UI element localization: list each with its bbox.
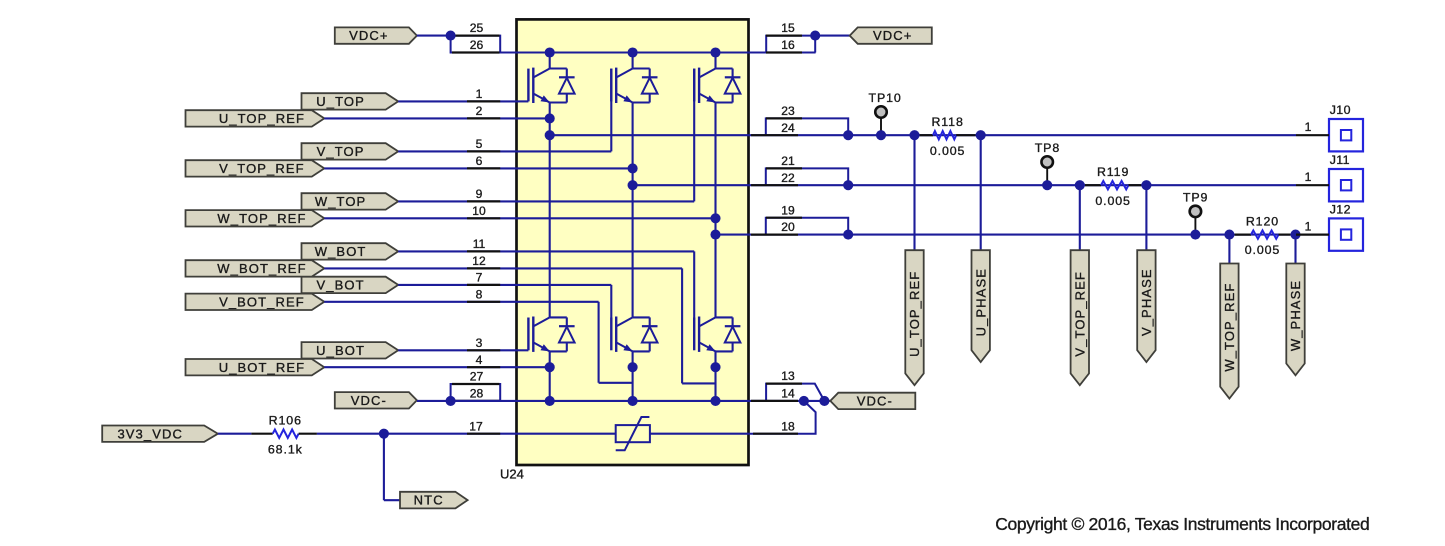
wire U_BOT_REF to module pin 4 — [324, 366, 516, 368]
wire W_BOT_REF to module pin 12 — [324, 267, 516, 269]
wire V phase leg — [632, 53, 634, 69]
diode W bottom — [716, 316, 733, 318]
pin 18 — [753, 433, 798, 435]
net flag V_PHASE — [1137, 250, 1155, 362]
wire U phase leg — [549, 53, 551, 69]
wire pin2 to U leg — [517, 117, 550, 119]
svg-text:10: 10 — [472, 204, 486, 218]
svg-text:V_TOP_REF: V_TOP_REF — [1072, 271, 1087, 357]
wire gate U_BOT — [517, 349, 529, 351]
net flag V_TOP_REF — [1071, 250, 1089, 385]
signal flag U_BOT — [302, 342, 399, 358]
wire U_TOP to module pin 1 — [398, 100, 516, 102]
wire to W_TOP_REF flag — [1228, 235, 1230, 264]
wire pin16 out of module — [749, 51, 816, 53]
svg-text:0.005: 0.005 — [930, 144, 966, 158]
wire pin20 out of module — [749, 234, 849, 236]
pin 28 — [452, 400, 500, 402]
wire R106 to pin17 — [317, 433, 517, 435]
wire pin14 out of module — [749, 400, 804, 402]
resistor R118 left lead — [920, 134, 933, 136]
wire VDC- flag to junction — [417, 400, 451, 402]
pin 13 — [766, 383, 802, 385]
svg-text:1: 1 — [1305, 219, 1312, 233]
svg-text:VDC+: VDC+ — [349, 28, 388, 43]
junction VDC- V — [628, 396, 638, 406]
transistor IGBT W bottom — [693, 318, 695, 351]
wire phase net — [848, 134, 1296, 136]
pin 25 — [452, 34, 500, 36]
svg-text:0.005: 0.005 — [1245, 243, 1281, 257]
pin 4 — [467, 366, 500, 368]
junction bus V leg — [628, 47, 638, 57]
junction U_PHASE — [976, 130, 986, 140]
pin 3 — [467, 349, 500, 351]
svg-text:4: 4 — [476, 353, 483, 367]
pin 23 — [766, 117, 802, 119]
diode U bottom — [550, 316, 567, 318]
wire to W_PHASE flag — [1294, 235, 1296, 264]
resistor R119 right lead — [1129, 184, 1142, 186]
wire pin4 to U leg — [517, 366, 550, 368]
net flag W_PHASE — [1286, 264, 1304, 376]
transistor IGBT U bottom — [527, 318, 529, 351]
wire to U_PHASE flag — [980, 135, 982, 250]
signal flag W_TOP — [302, 193, 399, 209]
net flag NTC — [400, 492, 468, 509]
transistor IGBT U top — [527, 69, 529, 102]
svg-text:V_TOP: V_TOP — [317, 144, 365, 159]
pin 10 — [467, 217, 500, 219]
J12 pin 1 lead — [1296, 234, 1329, 236]
junction loop 19-20 — [843, 230, 853, 240]
svg-text:R106: R106 — [269, 414, 302, 428]
junction bus W leg — [710, 47, 720, 57]
wire gate V_TOP vertical — [610, 69, 612, 152]
svg-text:1: 1 — [1305, 120, 1312, 134]
loop pins 25-26 — [451, 36, 501, 53]
pin 24 — [751, 134, 798, 136]
svg-text:23: 23 — [781, 104, 795, 118]
svg-text:20: 20 — [781, 220, 795, 234]
diode W top — [716, 67, 733, 69]
pin 26 — [452, 51, 500, 53]
svg-text:VDC+: VDC+ — [873, 28, 912, 43]
wire 3V3_VDC to R106 — [218, 433, 252, 435]
junction loop 23-24 — [843, 130, 853, 140]
power flag VDC- (right) — [830, 393, 915, 409]
svg-text:W_BOT_REF: W_BOT_REF — [217, 261, 306, 276]
junction pin14 dot1 — [799, 396, 809, 406]
wire pin28 into module — [451, 400, 517, 402]
wire U_TOP_REF to module pin 2 — [324, 117, 516, 119]
wire to VDC- right flag — [824, 400, 830, 402]
loop pins 27-28 — [451, 384, 501, 401]
signal flag V_TOP_REF — [186, 160, 325, 176]
loop pin 13 — [766, 384, 824, 401]
junction pin13-14 dot2 — [819, 396, 829, 406]
wire V phase to pins 21-22 — [633, 184, 749, 186]
wire V_BOT_REF to module pin 8 — [324, 301, 516, 303]
junction V_PHASE — [1141, 180, 1151, 190]
junction V leg pin8 — [628, 362, 638, 372]
svg-text:R118: R118 — [931, 115, 963, 129]
wire to V_TOP_REF flag — [1079, 185, 1081, 250]
signal flag W_BOT — [302, 243, 399, 259]
svg-text:28: 28 — [470, 387, 484, 401]
pin 21 — [766, 167, 802, 169]
connector J11 — [1329, 169, 1363, 201]
wire pin6 to V leg — [517, 167, 633, 169]
junction W_TOP_REF — [1224, 230, 1234, 240]
junction NTC branch — [379, 429, 389, 439]
signal flag V_TOP — [302, 143, 399, 159]
junction VDC+ left — [446, 31, 456, 41]
svg-text:12: 12 — [472, 254, 486, 268]
svg-text:U_BOT_REF: U_BOT_REF — [219, 360, 305, 375]
pin 1 — [467, 100, 500, 102]
svg-text:U_BOT: U_BOT — [316, 343, 365, 358]
pin 6 — [467, 167, 500, 169]
junction V leg phase out — [628, 180, 638, 190]
svg-text:26: 26 — [470, 38, 484, 52]
svg-text:TP8: TP8 — [1035, 141, 1060, 155]
IGBT power module U24 body — [517, 19, 749, 465]
svg-text:Copyright © 2016, Texas Instru: Copyright © 2016, Texas Instruments Inco… — [995, 514, 1369, 534]
svg-text:V_PHASE: V_PHASE — [1139, 268, 1154, 336]
svg-text:8: 8 — [476, 287, 483, 301]
resistor R119 left lead — [1085, 184, 1101, 186]
resistor R106 right lead — [299, 433, 317, 435]
junction W leg pin10 — [710, 213, 720, 223]
junction W leg pin12 — [710, 362, 720, 372]
svg-text:V_BOT_REF: V_BOT_REF — [219, 294, 305, 309]
wire V_BOT to module pin 7 — [398, 284, 516, 286]
resistor R106 left lead — [251, 433, 272, 435]
svg-text:V_TOP_REF: V_TOP_REF — [219, 161, 305, 176]
junction VDC+ right — [810, 31, 820, 41]
wire VDC- bus inside module — [517, 400, 749, 402]
wire gate U_TOP — [517, 100, 529, 102]
signal flag U_TOP — [302, 93, 399, 109]
wire pin10 to W leg — [517, 217, 716, 219]
wire W phase leg — [714, 53, 716, 69]
power flag VDC+ (right) — [850, 27, 932, 43]
net flag U_PHASE — [972, 250, 990, 362]
signal flag V_BOT_REF — [186, 294, 325, 310]
svg-text:16: 16 — [781, 38, 795, 52]
wire W_TOP_REF to module pin 10 — [324, 217, 516, 219]
svg-text:17: 17 — [469, 419, 483, 433]
junction VDC- left — [446, 396, 456, 406]
svg-text:19: 19 — [781, 203, 795, 217]
junction VDC- W — [710, 396, 720, 406]
svg-text:3V3_VDC: 3V3_VDC — [117, 426, 183, 441]
svg-text:2: 2 — [476, 104, 483, 118]
junction V_TOP_REF — [1075, 180, 1085, 190]
junction V leg pin6 — [628, 163, 638, 173]
wire pin24 out of module — [749, 134, 849, 136]
transistor IGBT V bottom — [610, 318, 612, 351]
svg-text:25: 25 — [470, 21, 484, 35]
wire U phase to pins 23-24 — [550, 134, 749, 136]
pin 9 — [467, 200, 500, 202]
loop pins 23-24 — [766, 118, 848, 135]
transistor IGBT W top — [693, 69, 695, 102]
svg-text:U24: U24 — [500, 467, 524, 482]
wire pin8 route to V leg — [517, 301, 599, 303]
pin 16 — [766, 51, 802, 53]
resistor R120 right lead — [1279, 234, 1291, 236]
net flag W_TOP_REF — [1220, 264, 1238, 399]
svg-text:VDC-: VDC- — [857, 394, 893, 409]
wire pin22 out of module — [749, 184, 849, 186]
resistor R119 — [1101, 181, 1129, 189]
junction U leg pin4 — [545, 362, 555, 372]
svg-text:J10: J10 — [1330, 103, 1351, 117]
svg-text:11: 11 — [473, 237, 486, 251]
svg-text:9: 9 — [476, 187, 483, 201]
junction loop 21-22 — [843, 180, 853, 190]
svg-text:15: 15 — [781, 21, 795, 35]
signal flag W_BOT_REF — [186, 260, 325, 276]
wire pin18 riser — [749, 401, 816, 434]
pin 12 — [467, 267, 500, 269]
wire V_TOP to module pin 5 — [398, 150, 516, 152]
svg-text:7: 7 — [476, 271, 483, 285]
svg-text:U_TOP_REF: U_TOP_REF — [219, 111, 305, 126]
J11 pin 1 lead — [1296, 184, 1329, 186]
resistor R118 — [933, 131, 956, 139]
wire phase net — [848, 234, 1296, 236]
wire to U_TOP_REF flag — [913, 135, 915, 250]
svg-text:U_TOP: U_TOP — [316, 94, 365, 109]
pin 7 — [467, 284, 500, 286]
svg-text:24: 24 — [781, 121, 795, 135]
resistor R118 right lead — [956, 134, 975, 136]
svg-text:W_TOP_REF: W_TOP_REF — [1222, 283, 1237, 372]
svg-text:VDC-: VDC- — [351, 393, 387, 408]
svg-text:1: 1 — [1305, 170, 1312, 184]
J10 pin 1 lead — [1296, 134, 1329, 136]
test point TP8 — [1046, 162, 1048, 185]
svg-text:21: 21 — [781, 154, 795, 168]
svg-text:TP10: TP10 — [869, 91, 902, 105]
diode V top — [633, 67, 650, 69]
power flag VDC+ (left) — [335, 27, 417, 43]
thermistor NTC symbol — [616, 425, 650, 442]
svg-text:0.005: 0.005 — [1095, 194, 1131, 208]
wire W phase to pins 19-20 — [716, 234, 749, 236]
svg-text:14: 14 — [781, 387, 795, 401]
svg-text:R120: R120 — [1246, 214, 1279, 228]
svg-text:18: 18 — [781, 419, 795, 433]
resistor R120 left lead — [1235, 234, 1251, 236]
power flag VDC- (left) — [335, 392, 417, 408]
svg-text:W_PHASE: W_PHASE — [1288, 280, 1303, 351]
signal flag W_TOP_REF — [186, 210, 325, 226]
test point TP9 — [1194, 211, 1196, 234]
pin 11 — [467, 250, 500, 252]
wire dot1 to dot2 — [804, 400, 825, 402]
transistor IGBT V top — [610, 69, 612, 102]
connector J10 — [1329, 119, 1363, 151]
signal flag U_BOT_REF — [186, 359, 325, 375]
junction U_TOP_REF — [909, 130, 919, 140]
diode V bottom — [633, 316, 650, 318]
pin 2 — [467, 117, 500, 119]
svg-text:6: 6 — [476, 154, 483, 168]
svg-text:68.1k: 68.1k — [268, 442, 303, 456]
connector J12 — [1329, 218, 1363, 250]
wire U_BOT to module pin 3 — [398, 349, 516, 351]
svg-text:J11: J11 — [1330, 153, 1350, 167]
svg-text:TP9: TP9 — [1183, 190, 1208, 204]
loop pins 21-22 — [766, 168, 848, 185]
svg-text:NTC: NTC — [414, 493, 444, 508]
wire NTC row inside module — [517, 433, 616, 435]
svg-text:W_TOP: W_TOP — [315, 194, 367, 209]
wire VDC+ bus inside module — [517, 51, 749, 53]
wire V_TOP_REF to module pin 6 — [324, 167, 516, 169]
loop pins 19-20 — [766, 218, 848, 235]
svg-text:5: 5 — [476, 137, 483, 151]
junction U leg phase out — [545, 130, 555, 140]
svg-text:U_PHASE: U_PHASE — [973, 268, 988, 336]
net flag U_TOP_REF — [905, 250, 923, 385]
svg-text:22: 22 — [781, 171, 795, 185]
wire VDC+ flag to junction — [417, 35, 451, 37]
resistor R120 — [1251, 230, 1279, 238]
wire W_TOP to module pin 9 — [398, 200, 516, 202]
pin 20 — [751, 234, 798, 236]
wire to V_PHASE flag — [1145, 185, 1147, 250]
svg-text:13: 13 — [781, 369, 795, 383]
junction W leg phase out — [710, 230, 720, 240]
wire pin12 route to W leg — [517, 267, 683, 269]
svg-text:27: 27 — [470, 370, 484, 384]
svg-text:W_TOP_REF: W_TOP_REF — [217, 211, 306, 226]
signal flag U_TOP_REF — [186, 110, 325, 126]
svg-text:J12: J12 — [1330, 202, 1351, 216]
resistor R106 — [273, 430, 299, 438]
svg-text:1: 1 — [476, 87, 483, 101]
power flag 3V3_VDC — [102, 426, 218, 442]
svg-text:V_BOT: V_BOT — [317, 278, 365, 293]
pin 8 — [467, 301, 500, 303]
pin 17 — [467, 433, 500, 435]
wire pin26 into module — [451, 51, 517, 53]
pin 19 — [766, 217, 802, 219]
wire phase net — [848, 184, 1296, 186]
wire W_BOT to module pin 11 — [398, 250, 516, 252]
pin 15 — [766, 34, 802, 36]
diode U top — [550, 67, 567, 69]
svg-text:R119: R119 — [1097, 165, 1129, 179]
test point TP10 — [880, 112, 882, 135]
wire NTC branch down — [383, 434, 385, 501]
junction U leg pin2 — [545, 113, 555, 123]
signal flag V_BOT — [302, 277, 399, 293]
pin 27 — [452, 383, 500, 385]
wire gate W_TOP vertical — [693, 69, 695, 202]
pin 5 — [467, 150, 500, 152]
wire gate V_BOT vertical — [517, 284, 612, 286]
loop pins 15-16 — [766, 36, 815, 53]
svg-text:3: 3 — [476, 336, 483, 350]
wire gate W_BOT vertical — [517, 250, 695, 252]
svg-text:U_TOP_REF: U_TOP_REF — [907, 271, 922, 357]
junction bus U leg — [545, 47, 555, 57]
pin 22 — [751, 184, 798, 186]
pin 14 — [751, 400, 798, 402]
junction W_PHASE — [1290, 230, 1300, 240]
wire to VDC+ right flag — [815, 35, 850, 37]
junction VDC- U — [545, 396, 555, 406]
svg-text:W_BOT: W_BOT — [315, 244, 367, 259]
